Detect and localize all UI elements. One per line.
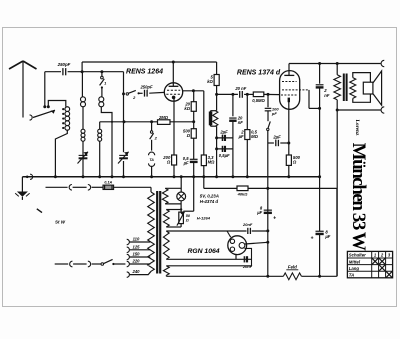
tube1 cathode — [172, 96, 176, 100]
wire resistor to tube2 grid — [264, 93, 280, 95]
resistor 3,3MOhm — [201, 155, 206, 166]
wire 500b to bus — [288, 165, 290, 176]
node grid line — [122, 92, 125, 95]
switch contact 2 grid — [126, 93, 128, 95]
node rail A anode tap — [172, 61, 175, 64]
wire 20k to 500 — [193, 111, 195, 128]
svg-text:Lang: Lang — [349, 266, 360, 271]
fuse 0,1A — [103, 185, 114, 189]
mains lead 2 — [55, 263, 68, 265]
wire 200Ohm to bus — [173, 165, 175, 177]
primary tap 150 — [127, 254, 130, 259]
wire speaker return — [337, 109, 381, 111]
wire S3 top — [166, 265, 251, 267]
mains lead 1 — [46, 186, 68, 188]
resistor 40kOhm — [237, 186, 248, 191]
tube RENS1374 envelope — [280, 71, 300, 110]
speaker voice coil — [363, 82, 373, 94]
capacitor 20nF coupling — [239, 91, 241, 98]
svg-text:+: + — [273, 215, 276, 221]
svg-text:0,5µF: 0,5µF — [219, 153, 230, 158]
capacitor 20nF lower — [243, 256, 245, 262]
pilot lamp — [177, 192, 186, 201]
switch contact 1 — [101, 72, 103, 77]
capacitor 0,5uF — [190, 158, 198, 160]
svg-text:TA: TA — [149, 158, 154, 162]
wire grid3 corner — [308, 90, 310, 109]
wire 0,5M vert top — [246, 94, 248, 129]
svg-text:TA: TA — [349, 273, 354, 278]
tube RGN1064 envelope — [228, 236, 247, 255]
svg-text:RENS 1374 d: RENS 1374 d — [237, 69, 281, 76]
svg-text:20 nF: 20 nF — [234, 86, 246, 91]
wire choke to bus — [216, 126, 218, 177]
rail B — [289, 63, 381, 65]
speaker terminal bottom — [381, 107, 384, 113]
svg-text:125: 125 — [133, 244, 141, 249]
B+ riser — [267, 143, 269, 276]
heater winding S1 — [163, 210, 169, 228]
wire cathode down — [173, 101, 175, 155]
resistor 500Ohm b — [288, 143, 290, 155]
primary tap 220 — [127, 261, 130, 266]
wire to coil L2 — [81, 72, 83, 97]
HV winding S3 — [163, 266, 169, 276]
svg-text:µF: µF — [238, 134, 244, 139]
winding S1 loop — [166, 209, 181, 211]
svg-text:150: 150 — [133, 252, 141, 257]
wire 8uF to feld wire — [319, 234, 321, 276]
wire rectifier loop — [245, 248, 252, 265]
svg-text:0,5MΩ: 0,5MΩ — [252, 98, 265, 103]
wire L2 mid — [82, 107, 84, 129]
wire grid tap down — [267, 94, 269, 107]
coil L2 lower — [81, 129, 85, 133]
capacitor 20nF anode — [229, 117, 236, 119]
speaker wiring loop — [353, 73, 371, 83]
svg-text:kΩ: kΩ — [184, 106, 190, 111]
rect heater winding S2 — [163, 231, 169, 259]
resistor 2MOhm — [158, 120, 171, 125]
antenna coil L1 top hook — [47, 105, 50, 108]
primary tap 240 — [127, 272, 130, 277]
wire S3 bottom to feld — [165, 274, 167, 277]
svg-text:St W: St W — [55, 220, 66, 225]
wire switch down — [267, 131, 269, 143]
rail A — [82, 61, 217, 63]
antenna — [22, 62, 24, 118]
border frame — [3, 28, 397, 307]
coil L2 upper — [81, 97, 86, 102]
wire lamp — [180, 177, 182, 192]
mains transformer primary — [148, 192, 155, 271]
wire L3 jog — [101, 107, 112, 177]
rectifier anode 1 — [230, 239, 234, 243]
capacitor 2uF bypass — [221, 135, 223, 141]
capacitor 8uF second — [316, 230, 324, 232]
wire bypass B — [217, 148, 233, 150]
grid line of RENS1264 — [123, 72, 125, 153]
svg-text:kΩ: kΩ — [207, 79, 213, 84]
wire L1 bottom to bus — [55, 130, 67, 177]
tube2 grid3 out — [282, 89, 309, 91]
antenna coil taps — [62, 108, 64, 110]
variable capacitor C2 — [119, 154, 128, 156]
svg-text:µF: µF — [256, 210, 262, 215]
resistor 0,5MOhm leak — [245, 130, 250, 140]
svg-text:µF: µF — [183, 160, 189, 165]
TA jack — [149, 152, 155, 155]
svg-text:RGN 1064: RGN 1064 — [187, 248, 219, 255]
wire L2 to variable cap C1 — [82, 141, 84, 177]
output transformer secondary — [350, 78, 356, 99]
tube2 grid2 — [282, 81, 297, 83]
svg-text:MΩ: MΩ — [208, 160, 215, 165]
wire 2nF branch — [319, 64, 321, 84]
rectifier anode 2 — [230, 247, 234, 251]
svg-text:pF: pF — [271, 111, 277, 116]
svg-text:µF: µF — [324, 234, 330, 239]
wire 0,5M leak to bus — [246, 140, 248, 177]
wire rectifier output — [245, 242, 268, 244]
wire feld to OT return — [301, 275, 337, 277]
wire S2 top to rectifier — [166, 230, 227, 232]
wire OT return — [336, 188, 338, 276]
wire 2MOhm to divider — [170, 121, 194, 123]
wire 500 to cap — [193, 138, 195, 159]
ground bus — [22, 176, 319, 178]
output transformer core — [343, 74, 345, 102]
wire bus-end down — [319, 177, 321, 231]
tube RENS1264 envelope — [164, 83, 182, 101]
primary tap 110 — [127, 239, 130, 244]
svg-text:München 33 W: München 33 W — [348, 143, 369, 251]
wire 20nF to resistor — [244, 93, 253, 95]
pointer tick — [37, 209, 42, 213]
svg-text:0,1A: 0,1A — [104, 181, 112, 185]
wire 5k to choke — [216, 86, 218, 111]
wire grid return — [100, 121, 157, 123]
speaker terminal top — [381, 60, 384, 66]
choke parallel resistor — [213, 111, 218, 127]
wire pot wiper to bus — [183, 210, 193, 212]
svg-text:110: 110 — [133, 237, 140, 242]
capacitor 2nF — [316, 84, 324, 86]
switch contact 2 TA — [150, 131, 152, 133]
mains transformer core — [156, 191, 158, 274]
svg-text:250pF: 250pF — [139, 85, 153, 90]
wire 3,3M to bus — [203, 166, 205, 189]
svg-text:RENS 1264: RENS 1264 — [126, 68, 163, 75]
svg-text:+: + — [311, 235, 314, 241]
wire TA branch — [151, 122, 153, 131]
variable capacitor C1 — [79, 154, 88, 156]
capacitor 20nF upper — [247, 228, 249, 234]
capacitor 8uF first — [264, 209, 272, 211]
switch table grid — [347, 251, 392, 277]
potentiometer 50 Ohm — [179, 212, 184, 224]
wire cap branch down — [44, 72, 46, 107]
svg-text:5V, 0,23A: 5V, 0,23A — [200, 193, 219, 198]
svg-text:MΩ: MΩ — [251, 134, 258, 139]
svg-text:Ω: Ω — [186, 133, 191, 138]
svg-text:Feld: Feld — [288, 264, 297, 269]
wire antenna to 250pF — [45, 71, 61, 73]
tube2 cathode — [288, 98, 290, 103]
svg-text:Ω: Ω — [185, 219, 189, 223]
power switch — [101, 263, 104, 266]
svg-text:220: 220 — [132, 259, 141, 264]
svg-text:Ω: Ω — [166, 160, 171, 165]
wire rail A to tube1 top — [172, 62, 174, 83]
wire rail B to tube2 top — [288, 64, 290, 72]
tube1 anode — [172, 83, 174, 86]
switch contact 1 tone — [268, 121, 270, 128]
wire anode to 20k — [193, 91, 195, 102]
wire rail A corner down — [216, 62, 218, 75]
antenna coil L1 — [65, 107, 70, 112]
wire 250pF to tuned circuits — [68, 71, 124, 73]
output transformer primary — [336, 64, 338, 75]
ground — [21, 177, 23, 192]
wire bypass A — [217, 137, 233, 139]
tube2 anode — [288, 71, 290, 76]
svg-text:240: 240 — [132, 269, 141, 274]
resistor 500Ohm a — [191, 129, 196, 139]
wire screen down — [203, 91, 205, 155]
node switch1 tap — [100, 70, 103, 73]
svg-text:Mittel: Mittel — [349, 259, 361, 264]
wire C2 to bus — [123, 161, 125, 177]
wire 2uF to cathode — [268, 142, 274, 144]
svg-text:H-1264: H-1264 — [197, 215, 211, 220]
svg-text:Ω: Ω — [292, 160, 297, 165]
wire B+ dist — [204, 187, 237, 189]
bus connector arc — [30, 174, 33, 179]
svg-text:2µF: 2µF — [272, 134, 281, 139]
svg-text:250pF: 250pF — [57, 62, 71, 67]
wire 2nF to bus — [319, 87, 321, 176]
speaker cone — [373, 71, 382, 105]
primary tap 125 — [127, 247, 130, 252]
svg-text:Lorenz: Lorenz — [354, 120, 360, 136]
svg-text:Schalter: Schalter — [349, 253, 366, 258]
capacitor 250pF grid — [139, 92, 143, 94]
bus junction dots — [54, 175, 57, 178]
wire cap to bus — [193, 162, 195, 177]
tube1 screen grid — [167, 89, 180, 91]
resistor 0,5MOhm grid stopper — [253, 92, 263, 97]
wire tube1 anode out — [182, 90, 203, 92]
wire anode byp top — [232, 94, 234, 116]
svg-text:2µF: 2µF — [219, 129, 228, 134]
svg-text:40kΩ: 40kΩ — [237, 192, 249, 197]
wire interstage — [217, 93, 238, 95]
svg-text:nF: nF — [238, 120, 244, 125]
svg-text:2MΩ: 2MΩ — [158, 115, 169, 120]
capacitor 100pF — [265, 107, 272, 109]
wire rail A down to tuned top — [81, 62, 83, 72]
resistor 20kOhm — [191, 102, 196, 112]
antenna selector arm — [30, 115, 33, 120]
capacitor 0,5uF bypass — [221, 146, 223, 152]
svg-text:20nF: 20nF — [242, 222, 253, 227]
resistor 5kOhm — [214, 75, 219, 86]
wire 20nF down to bus — [232, 121, 234, 177]
coil L3 upper — [99, 97, 104, 102]
anode choke — [211, 110, 217, 112]
tube2 grid1 — [281, 94, 297, 96]
svg-text:nF: nF — [324, 93, 330, 98]
svg-text:H-4374 d: H-4374 d — [200, 199, 219, 204]
wire 100pF to switch — [267, 111, 269, 121]
wire lamp to winding — [180, 201, 182, 210]
capacitor 250pF antenna — [62, 68, 64, 75]
wire fuse to primary — [114, 186, 151, 188]
wire S2 bottom — [166, 258, 251, 260]
coil L3 lower — [99, 122, 101, 129]
rectifier cathode — [239, 243, 245, 249]
lamp shunt resistor — [165, 187, 181, 189]
wire B+ dist right — [248, 187, 337, 189]
tube1 control grid — [166, 93, 181, 95]
resistor 200Ohm — [172, 155, 177, 165]
